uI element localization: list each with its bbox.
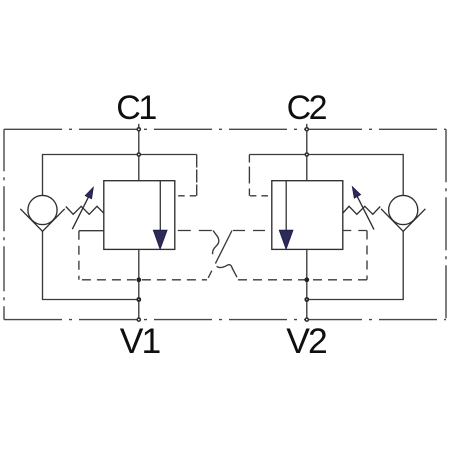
check valve CV1 ball <box>28 195 57 224</box>
node C2 tee <box>305 152 310 157</box>
spring pilot S2 vertical dashed <box>366 231 368 280</box>
cross pilot diagonal A jump lower arc <box>217 265 237 278</box>
enclosure border right <box>445 129 447 319</box>
pilot loop left vertical <box>196 155 198 196</box>
spring pilot S1 vertical dashed <box>78 231 80 280</box>
node C1 check join <box>136 297 141 302</box>
valve V1 flow path <box>159 181 161 231</box>
pilot loop right vertical dashed <box>248 155 250 196</box>
node C1 pilot cross <box>136 277 141 282</box>
spring S1 <box>66 206 104 214</box>
check valve CV2 seat <box>381 209 425 232</box>
pilot loop left solid <box>139 154 197 156</box>
node C2 check join <box>304 297 309 302</box>
svg-text:V1: V1 <box>120 321 161 361</box>
valve body V2 envelope <box>272 181 343 250</box>
node C2-border <box>305 127 310 132</box>
pilot stub to V1 right edge dashed <box>175 195 197 197</box>
wire check loop left upper <box>43 155 139 196</box>
wire check loop right upper <box>307 155 403 196</box>
check valve CV1 seat <box>20 209 64 232</box>
enclosure border left <box>3 129 5 319</box>
node V1-border <box>137 317 142 322</box>
enclosure border top <box>4 128 446 130</box>
spring pilot stub S1 solid <box>79 230 104 232</box>
spring S2 adjust arrow shaft <box>357 195 374 229</box>
valve V1 flow arrowhead <box>153 230 167 249</box>
pilot drain right horizontal dashed <box>234 279 367 281</box>
node V2-border <box>305 317 310 322</box>
node C1 tee <box>137 152 142 157</box>
spring S2 adjust arrowhead <box>352 187 360 199</box>
cross pilot upper-right dashed <box>232 230 272 232</box>
wire C2 vertical upper <box>306 124 308 181</box>
enclosure border bottom <box>4 319 446 321</box>
spring S1 adjust arrow shaft <box>72 195 89 229</box>
spring pilot stub S2 dashed <box>343 230 367 232</box>
pilot drain left horizontal dashed <box>79 279 207 281</box>
spring S1 adjust arrowhead <box>85 187 93 199</box>
wire check loop right lower <box>307 231 403 299</box>
node C2 pilot cross <box>304 277 309 282</box>
spring S2 <box>343 206 380 214</box>
pilot loop right solid <box>249 154 306 156</box>
wire C2 vertical lower <box>306 249 308 321</box>
cross pilot diagonal A with jump <box>213 231 219 255</box>
wire check loop left lower <box>43 231 139 299</box>
wire C1 vertical upper <box>138 124 140 181</box>
svg-text:C2: C2 <box>287 89 327 127</box>
pilot stub to V2 left edge dashed <box>249 195 271 197</box>
node C1-border <box>137 127 142 132</box>
valve V2 flow arrowhead <box>279 230 293 249</box>
check valve CV2 ball <box>389 195 418 224</box>
cross pilot diagonal B dashed <box>208 231 233 280</box>
svg-text:V2: V2 <box>286 321 326 361</box>
cross pilot upper-left dashed <box>175 230 213 232</box>
wire C1 vertical lower <box>138 249 140 321</box>
svg-text:C1: C1 <box>116 89 156 127</box>
valve body V1 envelope <box>104 181 175 250</box>
valve V2 flow path <box>285 181 287 231</box>
